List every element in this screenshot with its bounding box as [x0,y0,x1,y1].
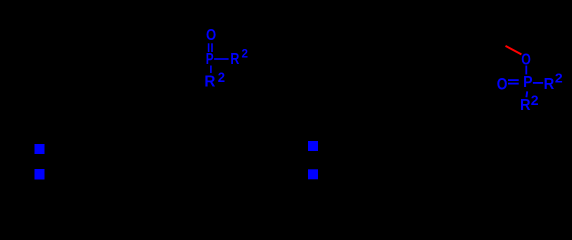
svg-text:P: P [523,75,533,92]
svg-text:R: R [204,73,215,90]
svg-text:2: 2 [555,71,563,85]
svg-text:R: R [520,97,531,115]
svg-text:R: R [544,75,555,93]
svg-text:2: 2 [531,92,539,108]
svg-text:O: O [521,51,531,69]
svg-text:O: O [497,75,508,94]
svg-text:2: 2 [218,70,225,85]
svg-text:O: O [206,27,216,45]
svg-text:P: P [206,49,214,67]
svg-text:2: 2 [241,47,248,60]
svg-text:R: R [230,50,240,68]
